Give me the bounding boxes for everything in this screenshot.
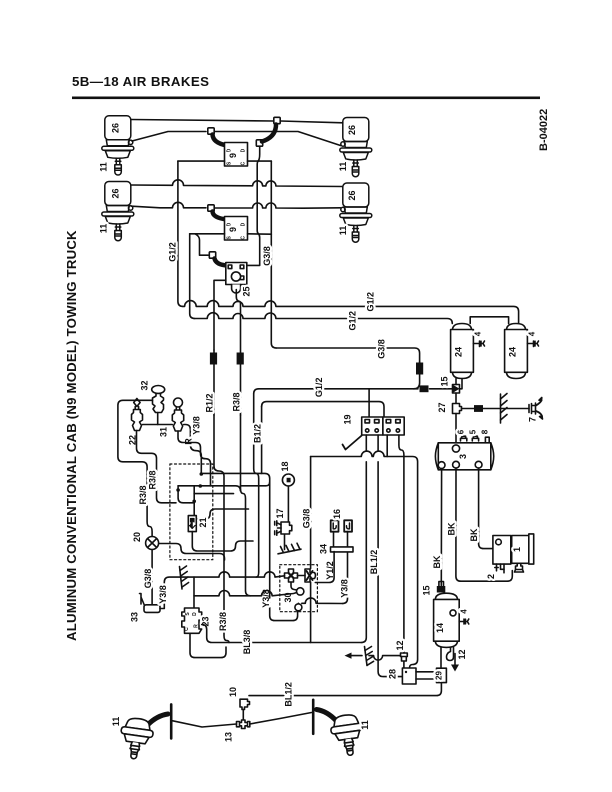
parking control valve 19 (dual)	[362, 417, 404, 435]
svg-text:R3/8: R3/8	[138, 485, 148, 504]
left frame bar	[170, 704, 173, 738]
brake chamber 26 mid-right	[340, 183, 372, 242]
wire: branch from y388.8 down into 19 box1	[368, 389, 370, 417]
fitting 4 on tank 14	[459, 619, 469, 624]
governor 2	[493, 536, 511, 570]
exhaust hatch (near 17)	[278, 543, 301, 554]
wire: row y502.8 into 21 area	[189, 502, 194, 504]
stop light switch 33	[140, 594, 161, 613]
wire: R3/8 from x224 to BL3/8 row	[224, 573, 229, 643]
wire: line between 22 and 31 at y424.5	[143, 424, 173, 426]
hose to left front chamber (thick)	[148, 714, 169, 725]
exhaust arrow and hatch (bottom center)	[345, 647, 401, 666]
svg-text:12: 12	[395, 640, 405, 650]
svg-text:25: 25	[242, 286, 252, 296]
wire: valve2 C line to tee at x271.3	[248, 233, 272, 235]
svg-text:18: 18	[280, 461, 290, 471]
exhaust hatch near 33	[180, 566, 189, 589]
wire: 21 bottom to row551	[192, 532, 253, 551]
exhaust hatch on safety line	[501, 394, 508, 424]
port square D on vertical x258	[256, 140, 262, 146]
wire: 16 left down to bulkhead 34	[333, 532, 335, 547]
wire: row y493.6 from cluster to x245.5	[194, 493, 233, 495]
svg-text:BK: BK	[447, 522, 457, 535]
svg-text:G1/2: G1/2	[168, 242, 178, 262]
wire: circle2 row to Y3/8 riser	[298, 598, 342, 611]
svg-text:11: 11	[99, 162, 109, 172]
hose: port A to relay 9 #1	[213, 135, 228, 146]
svg-text:ALUMINUM CONVENTIONAL CAB (N9: ALUMINUM CONVENTIONAL CAB (N9 MODEL) TOW…	[64, 230, 79, 641]
stop light switch 17	[275, 521, 292, 535]
dotted cab box (left cluster)	[170, 464, 213, 560]
svg-text:11: 11	[338, 226, 348, 236]
svg-text:24: 24	[508, 347, 518, 357]
svg-text:26: 26	[347, 190, 357, 200]
spring brake valve 23	[182, 608, 202, 633]
svg-text:17: 17	[275, 508, 285, 518]
svg-text:R3/8: R3/8	[218, 612, 228, 631]
air gauge 20	[146, 537, 159, 550]
svg-text:BL3/8: BL3/8	[242, 630, 252, 655]
wire: 19 port vertical x399 down to drain 12 tee	[399, 435, 404, 653]
wire: 23 right port down to BL3/8 row	[202, 625, 362, 643]
check valve 15 at tank 24 inlet	[453, 385, 460, 394]
wire: gauge 18 down to valve 17	[287, 486, 289, 523]
circle port of 30 (upper)	[297, 588, 304, 595]
trailer supply valve 31 (round knob)	[172, 398, 183, 431]
connectors 16 (glad hands)	[331, 520, 352, 531]
svg-text:9: 9	[228, 153, 238, 158]
svg-text:G3/8: G3/8	[302, 509, 312, 529]
svg-text:1: 1	[512, 547, 522, 552]
wire: valve1 C line to right, tee at x271.3	[248, 160, 272, 162]
svg-text:R1/2: R1/2	[205, 393, 215, 412]
svg-text:14: 14	[435, 623, 445, 633]
safety valve 7	[529, 403, 536, 414]
dotted cab floor box around 30	[280, 565, 318, 612]
parking valve 22 (diamond knob)	[132, 399, 143, 431]
filter on safety line	[474, 405, 483, 412]
wire: row y595.8 to circle port 30	[194, 591, 297, 596]
svg-text:3: 3	[458, 454, 468, 459]
wire: 19 port vertical x378.7 (BL1/2) down to box 28	[378, 435, 402, 677]
svg-text:2: 2	[486, 574, 496, 579]
wire: valve1 S line to left, corner down x177.9	[178, 160, 225, 162]
drain cock 12 on tank 14	[447, 647, 454, 660]
tee fitting 13	[237, 720, 250, 729]
wire: 13 right to right frame bar	[250, 713, 312, 725]
wire: gauge 20 down G3/8 to switch 33	[151, 550, 153, 606]
junction dot (210.5,485.8)	[199, 484, 203, 488]
svg-text:BK: BK	[469, 528, 479, 541]
bulkhead fitting 34	[331, 547, 354, 552]
wire: x310.6 down from cross to BL3/8 row	[310, 582, 312, 643]
wire: 19 port vertical x387.2 short	[386, 435, 388, 457]
svg-text:4: 4	[474, 331, 483, 336]
wire: BK line tank3 left port down to check 15 of tank 14	[440, 469, 442, 586]
wire: row y541.9 from gauge 20	[159, 544, 225, 561]
drain cock 4 on right tank	[527, 341, 538, 347]
svg-text:15: 15	[440, 376, 450, 386]
svg-text:C: C	[240, 161, 246, 165]
svg-text:16: 16	[332, 509, 342, 519]
svg-text:32: 32	[140, 380, 150, 390]
svg-text:5B—18 AIR BRAKES: 5B—18 AIR BRAKES	[72, 74, 209, 89]
wire: G3/8 vertical x310.6 from rect corner through label to cross 30	[310, 457, 312, 569]
wire: B1/2 x261.6 down to row 473.4	[261, 407, 263, 474]
wire: G1/2 supply line y306.4 to wet tank (24 right)	[183, 301, 519, 324]
svg-text:12: 12	[457, 649, 467, 659]
front brake chamber 11 (left)	[118, 716, 155, 760]
brake chamber 26 top-left	[102, 116, 134, 175]
svg-text:D: D	[227, 222, 233, 226]
drain cock 4 on left tank	[473, 341, 484, 347]
wire: Y3/8 left line into circle2	[270, 598, 298, 621]
svg-text:10: 10	[228, 687, 238, 697]
svg-text:D: D	[192, 612, 198, 616]
svg-text:G1/2: G1/2	[366, 292, 376, 312]
valve 9 upper port letters	[227, 148, 247, 239]
svg-text:R3/8: R3/8	[231, 392, 241, 411]
wire: double line 28 to 29	[416, 672, 437, 679]
wire: G1/2 line y388.8 from x253.7 to check valve 15	[259, 388, 453, 390]
wire: R1/2 vertical x214 with filter	[213, 350, 215, 415]
cross fitting 30 (right) on x310.6	[305, 569, 316, 582]
wire: valve2 S line y233.8 left corner down x189.7	[190, 233, 225, 235]
fitting 6 on tank 3	[461, 436, 467, 441]
wire: top service line y121 (TL top to port C)	[131, 120, 273, 122]
svg-text:D: D	[240, 222, 246, 226]
hose: port C to port D (thick)	[262, 125, 276, 142]
wire: vertical x271.3 valve1-C down to G3/8 elbow y348	[271, 161, 276, 348]
svg-text:19: 19	[343, 414, 353, 424]
svg-text:11: 11	[360, 720, 370, 730]
svg-text:D: D	[240, 148, 246, 152]
tank 3 top port circle	[452, 445, 459, 452]
wire: R1/2 continues into cab cluster	[214, 415, 224, 573]
svg-text:34: 34	[319, 544, 329, 554]
air tank 24 (right)	[505, 324, 528, 379]
svg-text:26: 26	[111, 123, 121, 133]
svg-text:5: 5	[468, 429, 477, 434]
pressure protection valve 29	[437, 668, 447, 682]
junction dot (178.1,490)	[176, 488, 180, 492]
svg-text:BL1/2: BL1/2	[369, 550, 379, 575]
wire: valve25 left port down x214 (R1/2)	[214, 280, 226, 350]
drain valve 12 (above box 28)	[401, 653, 408, 668]
svg-text:C: C	[240, 236, 246, 240]
header rule	[72, 97, 540, 100]
svg-text:26: 26	[347, 125, 357, 135]
compressor 1	[512, 534, 534, 572]
svg-text:8: 8	[481, 429, 490, 434]
wire: 29 bottom to BL1/2 front line	[249, 683, 441, 696]
svg-text:6: 6	[457, 429, 466, 434]
wire: loop from x117.9 top to valve 32	[118, 400, 153, 536]
wire: R3/8 vertical x240.5 from valve 25 with filter	[236, 290, 240, 416]
wire: 17 down to exhaust hatch	[284, 535, 286, 550]
fitting 8 on tank 3	[485, 437, 489, 442]
wire: 16 right down through 34	[343, 532, 348, 604]
wire: G1/2 x253.7 down joining row 577.1	[254, 394, 259, 577]
svg-text:24: 24	[454, 347, 464, 357]
wire: Y3/8 from 31 area down	[178, 431, 211, 486]
svg-text:R: R	[184, 438, 194, 445]
wire: 33 to Y3/8 riser to row 577.1	[160, 577, 181, 608]
svg-text:G3/8: G3/8	[376, 339, 386, 359]
svg-text:BL1/2: BL1/2	[284, 682, 294, 707]
wire: R3/8 continues down to row 595.8	[241, 415, 251, 596]
hose: port F to valve 25	[215, 259, 229, 266]
tank 3 bottom port circles	[438, 462, 445, 469]
wire: vertical x189.7 down to elbow y318.5	[190, 234, 195, 319]
svg-text:4: 4	[528, 331, 537, 336]
trailer hand valve 32	[152, 386, 165, 413]
wire: tank 14 bottom to valve 29	[440, 647, 442, 668]
wire: vertical x456 tee27 down to tank 3 port	[455, 414, 457, 445]
svg-text:28: 28	[388, 669, 398, 679]
relay valve 9 (lower)	[225, 217, 248, 241]
wire: Y1/2 line from cross 30 right port up to 34	[315, 552, 334, 583]
junction dot at (201.3,474.2)	[200, 472, 204, 476]
svg-text:G1/2: G1/2	[314, 378, 324, 398]
wire: G1/2 supply line y318.5 to tank 24 left	[195, 313, 453, 324]
wire: row y473.4 from cab to corner x269.7	[203, 473, 270, 598]
svg-text:C: C	[184, 627, 190, 631]
junction dot (194.2,501.3)	[192, 500, 196, 504]
wire: cab row y485.8	[178, 486, 240, 491]
wire: second line y131 from TL nub	[132, 132, 206, 142]
port square C on line y121	[274, 117, 280, 123]
svg-text:13: 13	[224, 732, 234, 742]
air gauge 18	[282, 474, 294, 486]
pressure protection valve 28	[402, 668, 416, 684]
tractor protection cross fitting 30 (left)	[285, 569, 298, 582]
svg-text:G3/8: G3/8	[143, 569, 153, 589]
wire: vertical x178.1 from row485.8 down to row 502.8	[178, 486, 189, 503]
svg-text:Y3/8: Y3/8	[191, 416, 201, 435]
check valve 15 on tank 14	[437, 586, 446, 593]
supply tank 3	[435, 443, 493, 470]
control valve 21	[188, 516, 196, 532]
wire: 10 to 13	[242, 710, 244, 721]
svg-text:4: 4	[460, 609, 469, 614]
lever of valve 19	[343, 436, 362, 450]
wet tank 14	[434, 593, 460, 647]
port circle on tank 14	[450, 610, 456, 616]
valve 23 port letters	[184, 612, 200, 631]
svg-text:21: 21	[198, 517, 208, 527]
svg-text:33: 33	[130, 612, 140, 622]
svg-text:D: D	[227, 148, 233, 152]
wire: y131 from port A to TR nub	[215, 132, 341, 146]
wire: valve 22 down and over to x156.5	[137, 431, 177, 503]
svg-text:15: 15	[422, 585, 432, 595]
svg-text:G3/8: G3/8	[262, 246, 272, 266]
svg-text:R3/8: R3/8	[147, 470, 157, 489]
wire: tank3 right port down then right to governor 2	[479, 468, 493, 548]
svg-text:27: 27	[437, 402, 447, 412]
port square A on line y131	[208, 128, 214, 134]
svg-text:Y3/8: Y3/8	[340, 579, 350, 598]
svg-text:7: 7	[528, 417, 538, 422]
wire: row3 y207.8 ML nub to port E to MR nub with bumps	[132, 202, 207, 207]
wire: cross30 down to circle port 1	[291, 582, 297, 590]
svg-text:B-04022: B-04022	[538, 109, 550, 151]
right frame bar	[312, 700, 315, 734]
relay valve 9 (upper)	[225, 143, 248, 167]
fitting 5 on tank 3	[472, 436, 478, 441]
wire: row y510.7 from 21 right to x252.5	[196, 509, 248, 519]
svg-text:29: 29	[435, 671, 444, 680]
svg-text:Y3/8: Y3/8	[158, 585, 168, 604]
svg-text:G1/2: G1/2	[347, 311, 357, 331]
wire: 19 port vertical x366.8 down to BL3/8 row	[361, 435, 366, 643]
hose: port E to relay 9 #2	[213, 212, 228, 220]
wire: top service line y121 (port C to TR top)	[281, 121, 343, 123]
circle port of 30 (lower)	[295, 604, 302, 611]
filter on R3/8	[237, 353, 244, 365]
valve 25 (two-way check)	[226, 263, 247, 294]
wire: 23 bottom loop row 657.6	[190, 633, 226, 657]
svg-text:11: 11	[338, 162, 348, 172]
port square F on line y255	[209, 252, 215, 258]
wire: vertical x194.2 from row 485.8 to 21	[193, 486, 195, 516]
svg-text:9: 9	[228, 227, 238, 232]
drain arrow below tank 14	[454, 654, 456, 665]
wire: G1/2 line y401.6 from x261.6 to valve 19	[262, 402, 384, 417]
svg-text:20: 20	[132, 532, 142, 542]
svg-text:BK: BK	[432, 555, 442, 568]
wire: G3/8 line y348 to air dryer	[276, 348, 419, 362]
filter on line y388.8	[420, 385, 429, 392]
wire: valve 32 stem down to tee on 22-31 line	[157, 413, 159, 425]
wire: row2 y185.6 ML top to MR top with bumps	[131, 180, 343, 187]
wire: bridge between tanks y316.8	[470, 317, 508, 324]
wire: valve 31 right port to R vertical	[184, 425, 202, 475]
air tank 24 (left)	[451, 324, 474, 379]
wire: row y577.1 hatch to cross 30	[181, 572, 285, 577]
wire: rectangle loop top edge y456.5 with bumps over 19 ports	[311, 451, 418, 668]
wire: governor unloader line short	[497, 568, 505, 573]
svg-text:31: 31	[159, 427, 169, 437]
svg-text:26: 26	[111, 188, 121, 198]
brake chamber 26 top-right	[340, 118, 372, 177]
wire: vertical x456 down to tee 27	[455, 393, 457, 404]
wire: branch from y233.8 down to port F	[195, 234, 208, 255]
svg-text:11: 11	[99, 224, 109, 234]
wire: vertical x177.9 (G1/2) down to elbow y306.4	[178, 161, 183, 306]
wire: BL1/2 from tee 10 (already drawn) ; hose line left to frame bar	[173, 721, 237, 727]
tee 27 (safety valve tee)	[453, 404, 462, 414]
svg-text:R: R	[194, 624, 200, 628]
wire: between cross fittings	[298, 575, 306, 577]
tee fitting 10	[240, 699, 250, 709]
wire: tee 27 to safety valve 7	[462, 408, 530, 410]
port square E on line y207.8	[208, 205, 214, 211]
svg-text:B1/2: B1/2	[253, 424, 263, 443]
front brake chamber 11 (right)	[329, 713, 366, 757]
svg-text:11: 11	[111, 717, 121, 727]
hose to right front chamber (thick)	[317, 710, 337, 722]
filter on R1/2	[210, 353, 217, 365]
wire: vertical x194 from row577 to valve 23	[193, 577, 195, 608]
brake chamber 26 mid-left	[102, 182, 134, 241]
filter (air dryer) on vertical x419.6	[416, 363, 423, 375]
wire: BK governor line tank3 mid port down, right, up to governor	[456, 468, 512, 581]
wire: vertical x258 port D to valve 25 right port	[247, 147, 260, 266]
